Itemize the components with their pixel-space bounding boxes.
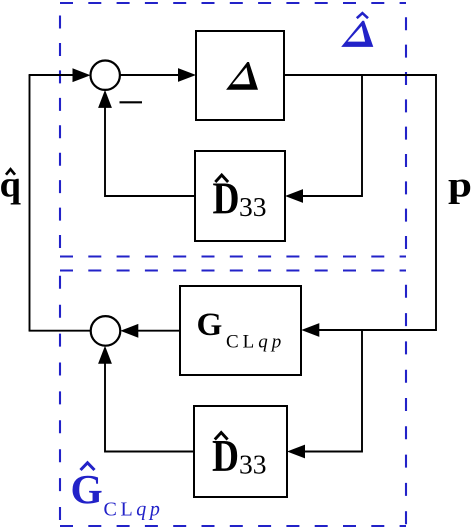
minus sign at top junction bbox=[120, 101, 143, 103]
wire into top junction bbox=[29, 74, 75, 76]
label q-hat bbox=[0, 164, 21, 205]
arrowhead up into top junction bbox=[98, 90, 112, 108]
wire Delta output to right side bbox=[284, 75, 436, 330]
wire branch to D-hat-33 top bbox=[302, 75, 362, 196]
arrowhead into G-CLqp bbox=[301, 323, 319, 337]
label Delta-hat blue bbox=[341, 13, 373, 47]
wire bottom junction output to left bbox=[29, 330, 91, 332]
block D-hat-33 top bbox=[195, 151, 285, 241]
wire D-hat-33 bottom output to bottom junction bbox=[105, 362, 194, 452]
wire left vertical q-hat bbox=[29, 75, 31, 331]
svg-text:G: G bbox=[197, 306, 223, 343]
arrowhead into D-hat-33 bottom bbox=[287, 445, 305, 459]
arrowhead into top junction bbox=[73, 68, 91, 82]
arrowhead into Delta bbox=[178, 68, 196, 82]
summing junction bottom bbox=[91, 316, 121, 346]
svg-text:G: G bbox=[71, 466, 103, 512]
wire G output to bottom junction bbox=[137, 330, 180, 332]
block D-hat-33 bottom bbox=[194, 406, 287, 497]
label G-hat-CLqp blue bbox=[71, 463, 164, 521]
wire D-hat-33 top output to top junction bbox=[105, 106, 195, 196]
block Delta U1 bbox=[196, 31, 284, 120]
summing junction top bbox=[91, 60, 120, 89]
dashed box Delta-hat bbox=[60, 3, 406, 257]
dashed box G-hat-CLqp bbox=[60, 271, 406, 527]
arrowhead into bottom junction bbox=[120, 324, 138, 338]
svg-text:CLqp: CLqp bbox=[104, 498, 164, 520]
wire top junction to Delta bbox=[120, 74, 180, 76]
svg-text:p: p bbox=[448, 165, 472, 205]
arrowhead into D-hat-33 top bbox=[285, 189, 303, 203]
block G-CLqp bbox=[180, 286, 301, 375]
svg-text:CLqp: CLqp bbox=[226, 332, 285, 353]
svg-text:33: 33 bbox=[239, 191, 267, 222]
svg-text:33: 33 bbox=[239, 448, 267, 479]
arrowhead up into bottom junction bbox=[98, 346, 112, 364]
wire branch to D-hat-33 bottom bbox=[304, 330, 362, 452]
